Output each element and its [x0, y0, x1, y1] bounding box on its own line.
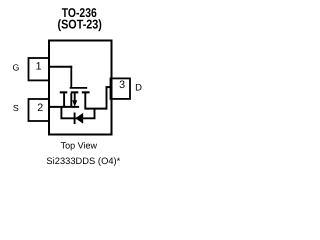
svg-text:D: D: [135, 83, 142, 94]
svg-text:1: 1: [36, 61, 42, 73]
svg-text:(SOT-23): (SOT-23): [58, 16, 102, 31]
svg-text:Top View: Top View: [61, 141, 98, 151]
svg-text:3: 3: [119, 79, 125, 91]
svg-text:Si2333DDS (O4)*: Si2333DDS (O4)*: [46, 156, 120, 166]
svg-text:G: G: [12, 63, 19, 73]
svg-text:2: 2: [37, 102, 43, 114]
svg-text:S: S: [13, 103, 19, 113]
